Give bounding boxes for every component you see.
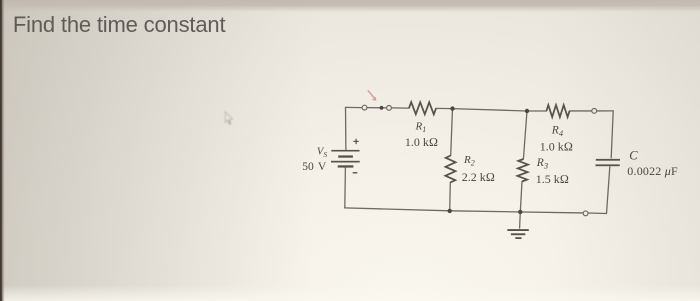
wire left side lower (source bottom) [344,168,347,208]
ground bar 1 [507,229,528,231]
wire left side upper (source top) [345,107,347,149]
node A junction dot [450,106,454,110]
wire bottom terminal to right corner [588,212,607,214]
node bottom R3 / ground junction dot [518,210,522,214]
wire R3 down to bottom node [520,182,522,212]
switch pole dot [380,106,384,110]
battery VS plate long lower [331,161,360,163]
ground bar 3 [515,237,521,239]
svg-text:R2: R2 [463,154,475,168]
switch actuation arrow (pink) [368,90,376,100]
wire R4 to open terminal [570,110,592,112]
svg-text:0.0022 μF: 0.0022 μF [627,164,678,178]
svg-text:R4: R4 [551,124,564,138]
wire R1 to R4 (through nodes A and B) [436,108,546,111]
wire ground stub [519,212,522,228]
svg-text:C: C [629,148,638,162]
wire node B down to R3 [523,111,527,159]
wire switch middle segment [367,107,387,109]
wire switch to R1 [391,107,409,109]
node bottom R2 junction dot [448,209,452,213]
switch terminal circle left [362,105,367,110]
svg-text:1.0 kΩ: 1.0 kΩ [540,140,573,154]
resistor R1 1.0k zigzag [409,102,436,114]
resistor R3 1.5k zigzag [517,159,528,182]
ground bar 2 [511,233,525,235]
wire R2 down to bottom node [449,183,452,211]
wire terminal to top-right corner [597,110,614,112]
svg-text:2.2 kΩ: 2.2 kΩ [462,170,495,184]
wire bottom left to open terminal [345,208,583,213]
svg-text:1.5 kΩ: 1.5 kΩ [536,172,569,186]
svg-text:R3: R3 [536,157,548,171]
switch terminal circle right [387,105,392,110]
wire top-left segment [346,106,363,108]
mouse cursor [225,112,232,125]
battery VS plate short bottom [338,165,354,167]
battery minus sign [353,172,358,173]
svg-text:1.0 kΩ: 1.0 kΩ [405,135,438,149]
battery plus sign [353,139,358,144]
open terminal circle after R4 [592,109,597,114]
svg-text:50 V: 50 V [302,161,327,173]
resistor R2 2.2k zigzag [445,156,455,183]
capacitor C bottom plate [596,164,620,166]
wire node A down to R2 [451,109,453,156]
wire right side below capacitor [607,167,610,214]
battery VS plate short upper [338,155,353,157]
open terminal circle bottom wire [583,211,588,216]
capacitor C top plate [596,159,620,161]
node B junction dot [525,109,529,113]
wire right side above capacitor [611,111,613,158]
resistor R4 1.0k zigzag [546,105,569,117]
svg-text:R1: R1 [415,121,427,135]
battery VS plate long top [331,150,359,152]
svg-text:VS: VS [317,146,327,158]
